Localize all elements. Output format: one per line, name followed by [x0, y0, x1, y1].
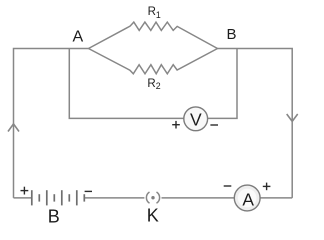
svg-text:R2: R2: [147, 78, 160, 91]
svg-text:B: B: [48, 206, 60, 225]
svg-text:A: A: [242, 189, 254, 209]
svg-text:K: K: [147, 205, 159, 225]
svg-text:V: V: [190, 110, 202, 130]
svg-text:B: B: [226, 26, 236, 43]
svg-text:R1: R1: [148, 6, 161, 20]
svg-text:A: A: [72, 29, 83, 46]
